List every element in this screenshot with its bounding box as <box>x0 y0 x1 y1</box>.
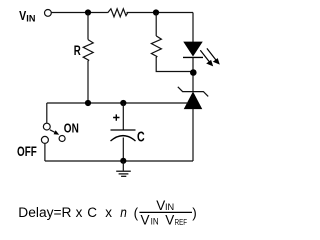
svg-text:x: x <box>76 205 83 220</box>
switch ON contact <box>59 136 65 142</box>
junction node B <box>153 9 159 15</box>
formula Delay=R x C x n(...) <box>18 198 197 228</box>
resistor R (vertical) <box>83 40 93 62</box>
junction node cap-top <box>120 100 126 106</box>
ground symbol <box>116 161 131 176</box>
wire right branch top <box>192 13 194 43</box>
wire cap bottom lead <box>122 138 124 162</box>
fraction bar <box>139 211 192 213</box>
LED light arrow 2 <box>207 48 220 64</box>
svg-text:R: R <box>74 43 81 58</box>
wire middle branch lower <box>156 57 193 72</box>
junction node ground <box>120 158 126 164</box>
svg-text:C: C <box>87 205 97 220</box>
wire TL431 anode down <box>192 109 194 161</box>
svg-text:REF: REF <box>175 217 187 227</box>
svg-text:): ) <box>192 206 197 221</box>
svg-text:Delay=R: Delay=R <box>18 205 71 220</box>
resistor (middle vertical, LED shunt) <box>151 36 161 58</box>
LED light arrow 1 <box>200 50 213 66</box>
capacitor C top plate <box>111 129 136 131</box>
wire top rail right <box>127 12 194 14</box>
switch pole contact <box>43 123 50 130</box>
junction node A <box>85 9 91 15</box>
svg-text:IN: IN <box>26 13 35 23</box>
capacitor + polarity mark <box>113 114 119 120</box>
svg-text:x: x <box>105 205 112 220</box>
wire reference rail y=103 <box>47 102 189 104</box>
svg-text:ON: ON <box>64 120 79 135</box>
wire top rail left <box>51 12 108 14</box>
svg-text:V: V <box>165 213 174 228</box>
wire bottom rail <box>45 160 193 162</box>
junction node D <box>190 69 197 76</box>
svg-text:OFF: OFF <box>17 144 37 159</box>
wire OFF contact to bottom rail <box>44 144 46 162</box>
wire switch drop <box>46 103 48 123</box>
wire left branch upper <box>87 13 89 40</box>
wire left branch lower <box>87 61 89 103</box>
switch arm arrow <box>50 130 59 135</box>
svg-text:(: ( <box>134 205 139 220</box>
svg-text:n: n <box>120 205 127 220</box>
wire cap top lead <box>122 103 124 130</box>
junction node C-left <box>85 100 91 106</box>
wire middle branch upper <box>155 13 157 36</box>
resistor (horizontal, top) <box>108 9 128 17</box>
TL431 triangle (anode up) <box>184 92 201 108</box>
LED D1 triangle <box>184 42 202 56</box>
wire LED to node D <box>192 57 194 91</box>
svg-text:V: V <box>156 198 165 213</box>
svg-text:V: V <box>141 213 150 228</box>
terminal VIN (open circle) <box>45 10 52 17</box>
LED D1 cathode bar <box>183 56 203 58</box>
capacitor C bottom plate (curved) <box>111 136 136 141</box>
svg-text:IN: IN <box>151 216 159 226</box>
switch OFF contact <box>41 136 48 143</box>
TL431 cathode bar (bent zener-style) <box>178 87 208 97</box>
svg-text:C: C <box>137 129 145 145</box>
svg-text:IN: IN <box>165 202 174 212</box>
node VIN label <box>19 8 35 23</box>
